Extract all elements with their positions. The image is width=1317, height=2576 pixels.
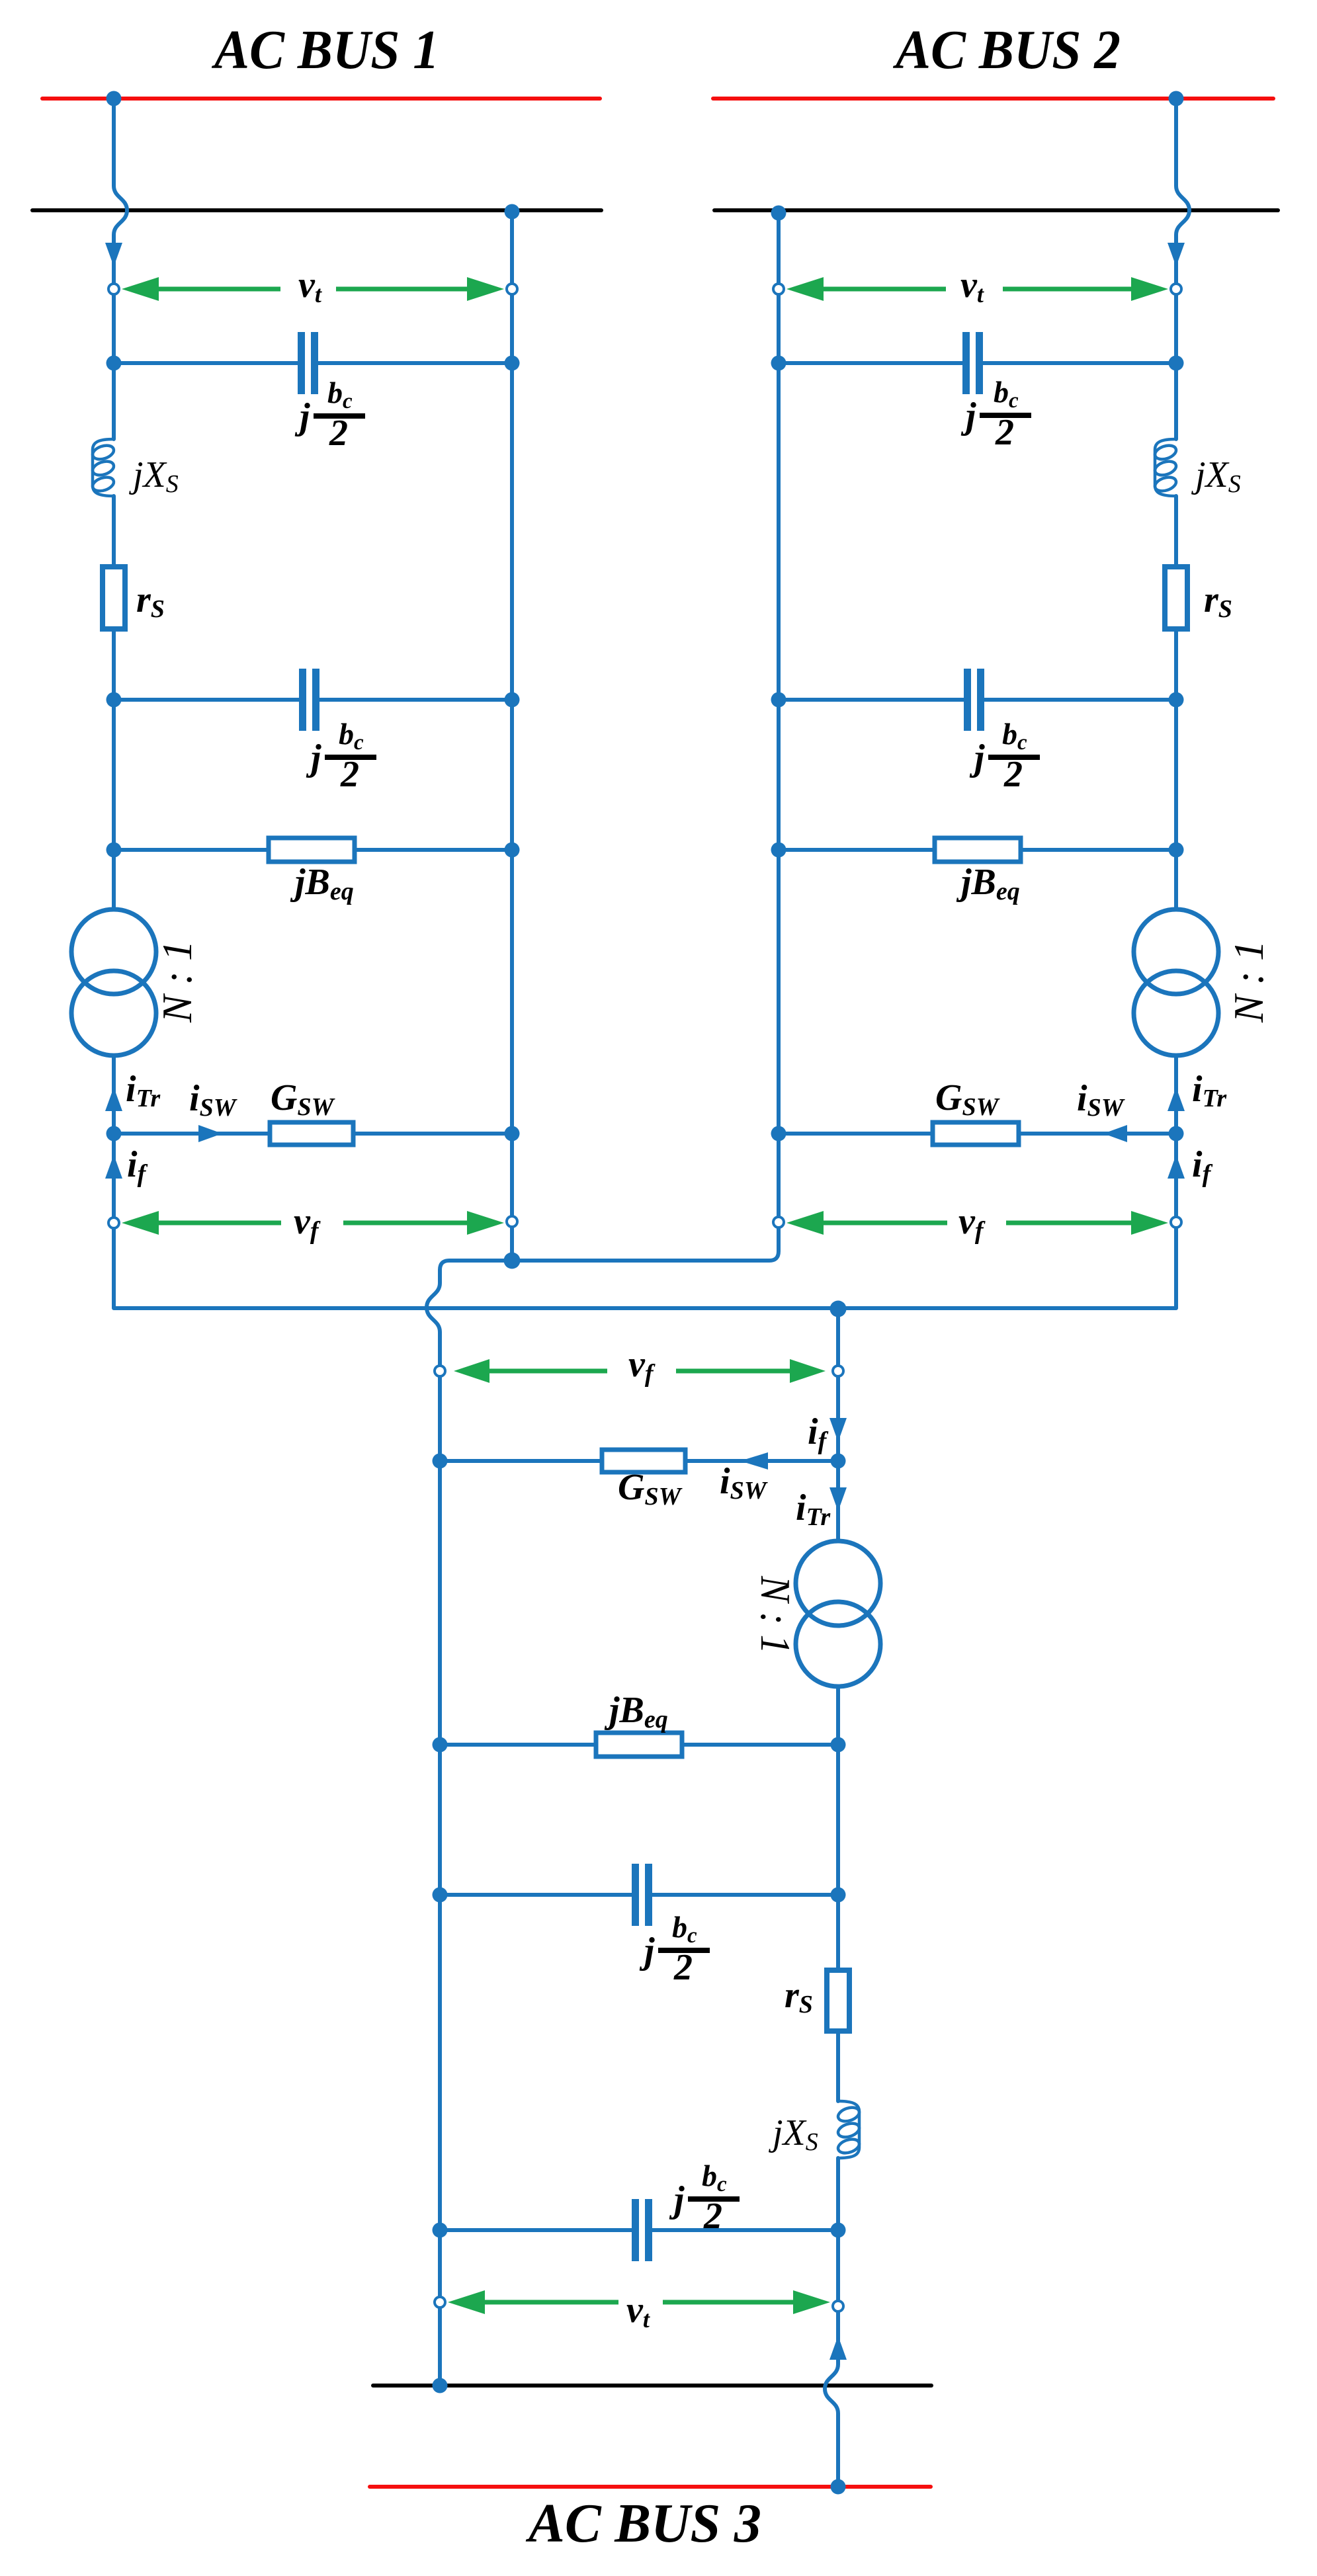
- node: VSC1 top capacitor right junction: [505, 356, 520, 371]
- svg-text:jBeq: jBeq: [290, 862, 354, 905]
- wire arrow: VSC1 feeder current (down): [105, 243, 122, 267]
- terminal circle: VSC2 vt left: [773, 284, 784, 294]
- value label: j bc/2 (VSC3 lower capacitor): [669, 2159, 740, 2237]
- wire: VSC2 lower filter capacitor branch: [779, 698, 1176, 702]
- terminal circle: VSC2 vf left: [773, 1217, 784, 1227]
- svg-text:if: if: [1192, 1144, 1213, 1188]
- node: AC bus2 black bar tap (inner rail): [771, 206, 786, 221]
- wire: VSC1 jBeq branch: [114, 848, 512, 852]
- terminal circle: VSC3 vf right: [833, 1366, 843, 1376]
- measurement arrow vf of VSC2 (green double arrow): [786, 1211, 1168, 1235]
- wire: VSC2 Gsw branch: [779, 1132, 1176, 1136]
- resistor Gsw (VSC1 switching conductance box): [270, 1122, 353, 1145]
- svg-text:rS: rS: [1204, 579, 1232, 623]
- svg-text:2: 2: [673, 1947, 693, 1988]
- wire: VSC2 top filter capacitor branch: [779, 361, 1176, 365]
- value label: j bc/2 (VSC3 upper capacitor): [639, 1910, 710, 1988]
- svg-text:jBeq: jBeq: [956, 862, 1020, 905]
- capacitor j bc/2 (VSC2 lower filter): [964, 669, 984, 731]
- node: VSC3 lower capacitor left junction: [433, 2223, 448, 2238]
- capacitor j bc/2 (VSC1 lower filter): [299, 669, 319, 731]
- wire: VSC3 upper filter capacitor branch: [440, 1893, 838, 1897]
- wire: VSC3 lower filter capacitor branch: [440, 2228, 838, 2232]
- capacitor j bc/2 (VSC2 top filter): [962, 332, 983, 394]
- wire arrow: iTr into VSC2 transformer (up): [1168, 1087, 1185, 1111]
- svg-text:N : 1: N : 1: [1225, 940, 1272, 1023]
- svg-text:2: 2: [995, 412, 1014, 453]
- terminal circle: VSC3 vt right: [833, 2301, 843, 2311]
- inductor jXs (VSC1 series reactance coil): [91, 439, 115, 496]
- measurement arrow vt of VSC3 (green double arrow): [448, 2290, 830, 2314]
- wire: VSC1 outer rail with breaker hop, bottom tie wire, VSC2 outer rail with breaker hop: [114, 99, 1189, 1308]
- node: VSC2 Gsw left junction: [771, 1126, 786, 1142]
- svg-text:GSW: GSW: [935, 1077, 1001, 1121]
- terminal circle: VSC3 vf left: [435, 1366, 445, 1376]
- wire arrow: iTr into VSC1 transformer (up): [105, 1087, 122, 1111]
- wire arrow: if into VSC2 node (up): [1168, 1155, 1185, 1179]
- wire arrow: iTr into VSC3 transformer (down): [829, 1487, 847, 1511]
- terminal circle: VSC2 vf right: [1171, 1217, 1181, 1227]
- node: VSC3 jBeq left junction: [433, 1737, 448, 1753]
- terminal circle: VSC1 vt right: [507, 284, 517, 294]
- svg-text:jXS: jXS: [129, 454, 179, 498]
- transformer N:1 (VSC1 ideal tap-changer, two overlapping circles): [93, 911, 135, 1054]
- node: AC bus3 red line tap: [831, 2479, 846, 2495]
- svg-text:2: 2: [329, 413, 348, 454]
- wire: VSC2 jBeq branch: [779, 848, 1176, 852]
- wire arrow: isw toward VSC3 Gsw (left): [740, 1452, 768, 1470]
- svg-text:iTr: iTr: [1192, 1069, 1227, 1112]
- resistor jBeq (VSC3 equivalent susceptance box): [596, 1733, 682, 1757]
- svg-text:vf: vf: [958, 1201, 986, 1245]
- wire arrow: isw toward VSC2 Gsw (left): [1103, 1125, 1127, 1142]
- svg-text:iSW: iSW: [720, 1461, 769, 1505]
- svg-text:2: 2: [703, 2196, 722, 2237]
- node: VSC3 jBeq right junction: [831, 1737, 846, 1753]
- AC BUS 2 black bus bar: [714, 208, 1278, 212]
- svg-text:N : 1: N : 1: [752, 1575, 799, 1654]
- node: VSC3 upper capacitor left junction: [433, 1888, 448, 1903]
- node: VSC2 jBeq right junction: [1169, 843, 1184, 858]
- node: AC bus1 black bar tap (inner rail): [505, 204, 520, 220]
- node: VSC2 jBeq left junction: [771, 843, 786, 858]
- node: VSC1 Gsw right junction: [505, 1126, 520, 1142]
- terminal circle: VSC2 vt right: [1171, 284, 1181, 294]
- node: AC bus1 red line tap: [106, 91, 122, 106]
- svg-text:jXS: jXS: [769, 2112, 818, 2156]
- node: VSC1 lower capacitor right junction: [505, 692, 520, 708]
- measurement arrow vf of VSC3 (green double arrow): [454, 1359, 826, 1383]
- node: AC bus2 red line tap: [1169, 91, 1184, 106]
- svg-text:iSW: iSW: [1077, 1078, 1126, 1122]
- node: VSC1 filter tie junction: [504, 1253, 521, 1269]
- svg-text:AC BUS 3: AC BUS 3: [525, 2493, 761, 2554]
- transformer N:1 (VSC2 ideal tap-changer, two overlapping circles): [1155, 911, 1197, 1054]
- capacitor j bc/2 (VSC3 lower filter): [632, 2199, 652, 2261]
- resistor rs (VSC1 series resistance): [103, 567, 125, 629]
- terminal circle: VSC1 vf right: [507, 1216, 517, 1227]
- terminal circle: VSC3 vt left: [435, 2297, 445, 2307]
- node: VSC3 upper capacitor right junction: [831, 1888, 846, 1903]
- svg-text:N : 1: N : 1: [153, 940, 200, 1023]
- svg-text:if: if: [127, 1144, 148, 1188]
- resistor jBeq (VSC1 equivalent susceptance box): [269, 838, 355, 862]
- node: VSC1 lower capacitor left junction: [106, 692, 122, 708]
- svg-text:vf: vf: [628, 1344, 656, 1388]
- value label: j bc/2 (VSC2 lower capacitor): [969, 717, 1040, 795]
- node: VSC1 Gsw left junction: [106, 1126, 122, 1142]
- wire arrow: isw toward VSC1 Gsw (right): [198, 1125, 222, 1142]
- svg-text:bc: bc: [994, 375, 1019, 413]
- AC BUS 1 red phase line: [42, 97, 600, 101]
- svg-text:j: j: [306, 737, 321, 778]
- value label: j bc/2 (VSC1 top capacitor): [294, 376, 365, 454]
- resistor Gsw (VSC3 switching conductance box): [602, 1450, 685, 1472]
- svg-text:bc: bc: [672, 1910, 697, 1948]
- svg-text:j: j: [294, 396, 310, 437]
- wire arrow: VSC3 feeder current (up): [829, 2336, 847, 2360]
- measurement arrow vt of VSC1 (green double arrow): [122, 277, 504, 301]
- svg-text:j: j: [669, 2179, 685, 2220]
- terminal circle: VSC1 vt left: [108, 284, 119, 294]
- wire arrow: VSC2 feeder current (down): [1168, 243, 1185, 267]
- svg-text:iSW: iSW: [189, 1078, 238, 1122]
- wire arrow: if into VSC1 node (up): [105, 1155, 122, 1179]
- wire: VSC3 Gsw branch: [440, 1459, 838, 1463]
- capacitor j bc/2 (VSC3 upper filter): [632, 1864, 652, 1926]
- wire arrow: if into VSC3 node (down): [829, 1418, 847, 1442]
- AC BUS 1 black bus bar: [32, 208, 601, 212]
- svg-text:vf: vf: [294, 1201, 321, 1245]
- svg-text:vt: vt: [626, 2290, 650, 2333]
- AC BUS 2 red phase line: [713, 97, 1273, 101]
- resistor rs (VSC3 series resistance): [827, 1970, 849, 2031]
- resistor Gsw (VSC2 switching conductance box): [933, 1122, 1019, 1145]
- AC BUS 3 red phase line: [370, 2485, 931, 2489]
- svg-text:rS: rS: [136, 579, 165, 623]
- wire: VSC1 Gsw branch: [114, 1132, 512, 1136]
- value label: j bc/2 (VSC2 top capacitor): [960, 375, 1031, 453]
- node: VSC2 Gsw right junction: [1169, 1126, 1184, 1142]
- svg-text:AC BUS 1: AC BUS 1: [211, 19, 439, 81]
- svg-text:bc: bc: [327, 376, 353, 413]
- node: VSC3 lower capacitor right junction: [831, 2223, 846, 2238]
- resistor rs (VSC2 series resistance): [1165, 567, 1187, 629]
- svg-text:2: 2: [340, 754, 359, 795]
- wire: VSC3 jBeq branch: [440, 1743, 838, 1747]
- capacitor j bc/2 (VSC1 top filter): [298, 332, 318, 394]
- node: VSC3 Gsw right junction: [831, 1454, 846, 1469]
- svg-text:jXS: jXS: [1191, 454, 1241, 498]
- node: VSC1 jBeq left junction: [106, 843, 122, 858]
- node: VSC2 top capacitor left junction: [771, 356, 786, 371]
- svg-text:GSW: GSW: [271, 1077, 336, 1121]
- inductor jXs (VSC2 series reactance coil): [1153, 439, 1177, 496]
- svg-text:rS: rS: [785, 1975, 813, 2018]
- node: VSC1 jBeq right junction: [505, 843, 520, 858]
- node: VSC1 top capacitor left junction: [106, 356, 122, 371]
- svg-text:AC BUS 2: AC BUS 2: [892, 19, 1121, 81]
- svg-text:2: 2: [1003, 754, 1023, 795]
- svg-text:jBeq: jBeq: [604, 1690, 668, 1733]
- svg-text:j: j: [969, 737, 985, 778]
- inductor jXs (VSC3 series reactance coil): [836, 2101, 861, 2158]
- wire: VSC3 right rail from tie wire through AC bus 3 breaker hop to red line: [825, 1308, 838, 2487]
- svg-text:vt: vt: [960, 265, 984, 308]
- wire: VSC2 inner rail, mid tie wire and VSC3 left rail with breaker hop: [427, 213, 779, 2386]
- AC BUS 3 black bus bar: [373, 2384, 931, 2388]
- node: VSC3 tie wire junction: [830, 1301, 847, 1317]
- measurement arrow vt of VSC2 (green double arrow): [786, 277, 1168, 301]
- node: VSC2 top capacitor right junction: [1169, 356, 1184, 371]
- svg-text:j: j: [960, 395, 976, 436]
- wire: VSC1 inner rail (AC bus 1 to filter node): [510, 210, 514, 1261]
- node: VSC2 lower capacitor right junction: [1169, 692, 1184, 708]
- svg-text:bc: bc: [702, 2159, 727, 2196]
- value label: j bc/2 (VSC1 lower capacitor): [306, 717, 376, 795]
- svg-text:j: j: [639, 1931, 655, 1972]
- transformer N:1 (VSC3 ideal tap-changer, two overlapping circles): [817, 1542, 859, 1685]
- node: VSC3 Gsw left junction: [433, 1454, 448, 1469]
- node: AC bus3 black bar tap (left rail): [433, 2378, 448, 2393]
- wire: VSC1 lower filter capacitor branch: [114, 698, 512, 702]
- svg-text:iTr: iTr: [796, 1487, 831, 1531]
- svg-text:iTr: iTr: [126, 1069, 161, 1112]
- wire: VSC1 top filter capacitor branch: [114, 361, 512, 365]
- node: VSC2 lower capacitor left junction: [771, 692, 786, 708]
- svg-text:bc: bc: [339, 717, 364, 755]
- svg-text:if: if: [808, 1411, 829, 1455]
- resistor jBeq (VSC2 equivalent susceptance box): [935, 838, 1021, 862]
- svg-text:vt: vt: [298, 265, 322, 308]
- svg-text:bc: bc: [1002, 717, 1027, 755]
- measurement arrow vf of VSC1 (green double arrow): [122, 1211, 504, 1235]
- terminal circle: VSC1 vf left: [108, 1218, 119, 1228]
